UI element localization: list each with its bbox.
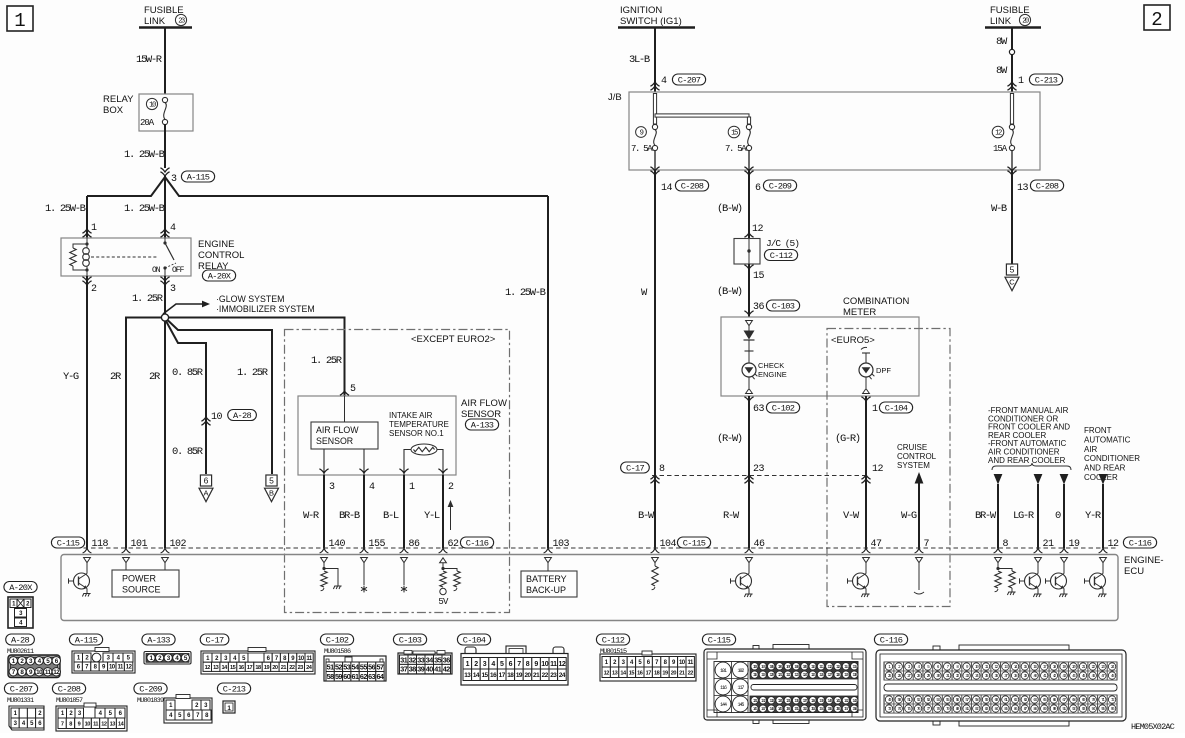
wire B-W from 6 to J/C [748, 170, 750, 238]
connector A-133 [142, 634, 175, 645]
svg-text:R-W: R-W [723, 510, 740, 522]
ECU internal transistor at pin 47 [863, 558, 870, 563]
wire W down from 14 [654, 170, 656, 548]
ECU pin 104 [651, 548, 660, 553]
svg-text:2: 2 [91, 284, 97, 295]
C-17 inline connector dashed line [652, 475, 866, 477]
connector C-103 [393, 634, 426, 645]
svg-text:SENSOR NO.1: SENSOR NO.1 [389, 429, 444, 438]
svg-text:C-17: C-17 [205, 636, 224, 646]
svg-text:33: 33 [417, 655, 424, 664]
svg-text:(B-W): (B-W) [717, 286, 742, 298]
svg-text:1. 25W-B: 1. 25W-B [505, 287, 546, 299]
svg-text:C-116: C-116 [466, 539, 489, 549]
svg-text:15W-R: 15W-R [136, 54, 163, 66]
svg-text:BACK-UP: BACK-UP [526, 585, 566, 595]
wire R-W [748, 396, 750, 548]
svg-text:A-133: A-133 [147, 636, 170, 646]
svg-text:C-116: C-116 [1129, 539, 1152, 549]
svg-text:13: 13 [110, 721, 116, 727]
svg-text:19: 19 [264, 665, 270, 671]
svg-text:ENGINE: ENGINE [198, 239, 234, 250]
svg-text:C-115: C-115 [683, 539, 706, 549]
connector C-112 [596, 634, 629, 645]
svg-text:B-W: B-W [638, 510, 655, 522]
ECU pin 86 [400, 548, 409, 553]
svg-text:57: 57 [376, 662, 383, 671]
svg-text:INTAKE AIR: INTAKE AIR [389, 411, 433, 420]
svg-text:C-213: C-213 [1035, 76, 1058, 86]
svg-text:19: 19 [516, 672, 523, 679]
svg-text:MU801857: MU801857 [56, 697, 83, 705]
svg-text:DPF: DPF [876, 366, 891, 375]
svg-text:5: 5 [500, 661, 504, 668]
branch 1.25R to air flow sensor [169, 318, 345, 397]
svg-text:C-115: C-115 [708, 636, 731, 646]
inline connector 3 A-115 [160, 168, 169, 172]
svg-text:8: 8 [659, 464, 665, 475]
relay pin 3 [160, 277, 169, 281]
ECU pin 19 [1060, 548, 1069, 553]
svg-text:C-207: C-207 [678, 76, 701, 86]
svg-text:C-103: C-103 [772, 302, 795, 312]
svg-text:14: 14 [661, 183, 673, 194]
page number 1 [7, 6, 33, 31]
svg-text:2: 2 [448, 482, 454, 493]
svg-text:64: 64 [376, 672, 383, 681]
svg-text:W-B: W-B [991, 203, 1007, 215]
wire 2R center [164, 321, 166, 548]
pointer 5 B [266, 475, 277, 486]
connector A-115 [69, 634, 102, 645]
svg-text:Y-R: Y-R [1085, 510, 1102, 522]
svg-text:C-112: C-112 [602, 636, 625, 646]
connector C-207 [4, 683, 37, 694]
svg-text:C-102: C-102 [772, 404, 795, 414]
svg-text:11: 11 [45, 669, 52, 676]
svg-text:4: 4 [661, 76, 667, 87]
branch 0.85R to pointer A [166, 321, 206, 474]
ECU connector dashed line [61, 547, 1118, 549]
svg-text:24: 24 [559, 672, 566, 679]
svg-text:3L-B: 3L-B [629, 54, 650, 66]
svg-text:14: 14 [473, 672, 480, 679]
up arrow beside Y-L [450, 506, 452, 530]
svg-text:FUSIBLE: FUSIBLE [144, 5, 184, 16]
wire Y-G [86, 276, 88, 548]
svg-text:58: 58 [327, 672, 334, 681]
svg-text:2: 2 [474, 661, 478, 668]
svg-text:(R-W): (R-W) [717, 433, 742, 445]
connector C-209 [134, 683, 167, 694]
svg-text:J/C (5): J/C (5) [766, 238, 799, 249]
ECU pin 47 [862, 548, 871, 553]
svg-text:17: 17 [499, 672, 506, 679]
wire 1.25W-B long right [547, 196, 549, 548]
svg-text:22: 22 [542, 672, 549, 679]
svg-text:C-116: C-116 [880, 636, 903, 646]
svg-text:·IMMOBILIZER SYSTEM: ·IMMOBILIZER SYSTEM [216, 304, 315, 314]
wire split at A-115 [87, 176, 548, 238]
connector C-208 [52, 683, 85, 694]
svg-text:16: 16 [490, 672, 497, 679]
svg-text:15: 15 [230, 665, 236, 671]
svg-text:(B-W): (B-W) [717, 203, 742, 215]
svg-text:23: 23 [298, 665, 304, 671]
check engine lamp [742, 363, 756, 377]
svg-text:1. 25W-B: 1. 25W-B [124, 149, 165, 161]
svg-text:SYSTEM: SYSTEM [897, 461, 930, 470]
svg-text:BR-W: BR-W [975, 510, 997, 522]
svg-text:C-208: C-208 [681, 182, 704, 192]
connector A-20X [4, 582, 37, 593]
svg-text:8: 8 [526, 661, 530, 668]
svg-text:V-W: V-W [843, 510, 860, 522]
svg-text:21: 21 [679, 670, 685, 676]
arrow to glow system [163, 304, 202, 314]
svg-text:ECU: ECU [1124, 566, 1144, 577]
wire Y-R [1099, 474, 1108, 485]
svg-text:Y-L: Y-L [424, 510, 440, 522]
svg-text:LG-R: LG-R [1013, 510, 1035, 522]
connector C-17 [200, 634, 229, 645]
svg-text:0. 85R: 0. 85R [172, 367, 204, 379]
meter outputs [744, 397, 753, 401]
svg-text:102: 102 [170, 539, 187, 550]
svg-text:ON: ON [152, 266, 161, 275]
svg-text:3: 3 [171, 174, 177, 185]
svg-text:A-28: A-28 [11, 636, 30, 646]
ECU pin 12 [1099, 548, 1108, 553]
wire to relay pin 1 [86, 196, 88, 238]
svg-text:8: 8 [1003, 539, 1009, 550]
ECU pin 21 [1034, 548, 1043, 553]
svg-text:C-115: C-115 [57, 539, 80, 549]
svg-text:4: 4 [491, 661, 495, 668]
svg-text:BR-B: BR-B [339, 510, 360, 522]
svg-text:9: 9 [534, 661, 538, 668]
svg-text:38: 38 [409, 665, 416, 674]
ECU pin 155 [360, 548, 369, 553]
svg-text:A-133: A-133 [471, 421, 494, 431]
svg-text:60: 60 [343, 672, 350, 681]
svg-text:SENSOR: SENSOR [316, 436, 353, 446]
combination meter box [721, 317, 919, 396]
svg-text:47: 47 [871, 539, 883, 550]
svg-text:C-209: C-209 [139, 685, 162, 695]
svg-text:56: 56 [368, 662, 375, 671]
branch 1.25R to pointer B [168, 320, 273, 474]
svg-text:1. 25W-B: 1. 25W-B [124, 203, 165, 215]
svg-text:52: 52 [335, 662, 342, 671]
wire 3L-B [654, 28, 656, 93]
svg-text:BATTERY: BATTERY [526, 574, 567, 584]
svg-text:35: 35 [434, 655, 441, 664]
svg-text:CONTROL: CONTROL [897, 452, 937, 461]
svg-text:AND REAR COOLER: AND REAR COOLER [988, 456, 1066, 465]
euro5 boundary [827, 329, 950, 607]
svg-text:C-112: C-112 [770, 251, 793, 261]
svg-text:4: 4 [369, 482, 375, 493]
svg-text:17: 17 [247, 665, 253, 671]
DPF lamp [865, 353, 867, 363]
svg-text:10: 10 [211, 412, 223, 423]
svg-text:3: 3 [483, 661, 487, 668]
wire W-B to pointer C [1011, 170, 1013, 264]
svg-text:HEM05X02AC: HEM05X02AC [1131, 722, 1175, 732]
svg-text:1: 1 [1018, 76, 1024, 87]
except euro2 boundary [285, 330, 510, 613]
svg-text:3: 3 [329, 482, 335, 493]
svg-text:22: 22 [289, 665, 295, 671]
svg-text:1: 1 [409, 482, 415, 493]
relay coil and resistor [86, 238, 88, 244]
fuse 12 15A [992, 126, 1004, 138]
svg-text:36: 36 [753, 302, 765, 313]
svg-text:18: 18 [654, 670, 660, 676]
svg-text:12: 12 [205, 665, 211, 671]
svg-text:11: 11 [550, 661, 557, 668]
svg-text:C-104: C-104 [885, 404, 908, 414]
svg-text:118: 118 [92, 539, 109, 550]
ECU internal at pin 7 [916, 558, 923, 563]
svg-text:SWITCH (IG1): SWITCH (IG1) [620, 16, 682, 27]
svg-text:23: 23 [550, 672, 557, 679]
svg-text:61: 61 [352, 672, 359, 681]
svg-text:10: 10 [541, 661, 548, 668]
pointer 6 A [200, 475, 211, 486]
svg-text:B: B [269, 489, 274, 498]
svg-text:59: 59 [335, 672, 342, 681]
page number 2 [1144, 5, 1170, 30]
svg-text:21: 21 [281, 665, 287, 671]
J/B outputs [650, 167, 659, 171]
svg-text:86: 86 [409, 539, 421, 550]
svg-text:63: 63 [753, 404, 765, 415]
relay box [139, 94, 193, 131]
svg-text:W-G: W-G [901, 510, 917, 522]
fuse 15 7.5A [728, 126, 740, 138]
svg-text:C-208: C-208 [1036, 182, 1059, 192]
ECU pin 46 [745, 548, 754, 553]
ECU internals at pin 8 [995, 558, 1002, 563]
junction block J/B [629, 92, 1040, 170]
pointer 5 C [1006, 264, 1017, 275]
connector C-104 [457, 634, 490, 645]
svg-text:B-L: B-L [383, 510, 399, 522]
svg-text:3: 3 [170, 284, 176, 295]
svg-text:1. 25R: 1. 25R [311, 355, 343, 367]
svg-text:15: 15 [753, 271, 765, 282]
ECU internal transistor at pin 46 [746, 558, 753, 563]
engine ECU box [61, 555, 1118, 621]
svg-text:6: 6 [204, 476, 209, 486]
svg-text:4: 4 [170, 223, 176, 234]
svg-text:J/B: J/B [608, 92, 622, 103]
svg-text:LINK: LINK [144, 16, 166, 27]
svg-text:12: 12 [53, 669, 60, 676]
svg-text:A-115: A-115 [75, 636, 98, 646]
svg-text:37: 37 [400, 665, 407, 674]
wire 8W [1011, 28, 1013, 93]
svg-text:12: 12 [1108, 539, 1120, 550]
ECU pin 103 [544, 548, 553, 553]
svg-text:5: 5 [350, 384, 356, 395]
ECU internals at pin 140 [321, 558, 328, 563]
ECU pin 62 [439, 548, 448, 553]
svg-text:104: 104 [660, 539, 677, 550]
svg-text:C-208: C-208 [58, 685, 81, 695]
svg-text:12: 12 [101, 721, 107, 727]
svg-text:BOX: BOX [103, 105, 124, 116]
svg-text:140: 140 [329, 539, 346, 550]
air flow sensor inner box [311, 422, 378, 449]
svg-text:ENGINE-: ENGINE- [1124, 555, 1164, 566]
svg-text:W-R: W-R [303, 510, 320, 522]
svg-text:FRONT: FRONT [1084, 426, 1112, 435]
ECU pin 118 [83, 548, 92, 553]
ECU pin 140 [320, 548, 329, 553]
svg-text:<EURO5>: <EURO5> [831, 335, 875, 346]
svg-text:10: 10 [85, 721, 91, 727]
svg-text:103: 103 [553, 539, 570, 550]
wire LG-R [1034, 474, 1043, 485]
svg-text:31: 31 [400, 655, 407, 664]
svg-text:C-104: C-104 [463, 636, 486, 646]
fusible link bus bar [139, 26, 192, 28]
svg-text:A-20X: A-20X [208, 272, 232, 282]
relay switch [91, 256, 158, 258]
ECU pin 101 [122, 548, 131, 553]
svg-text:CRUISE: CRUISE [897, 443, 927, 452]
ECU internal transistor at pin 1103 [1100, 558, 1107, 563]
connector C-213 [217, 683, 250, 694]
svg-text:63: 63 [368, 672, 375, 681]
svg-text:32: 32 [409, 655, 416, 664]
svg-text:101: 101 [131, 539, 148, 550]
svg-text:15: 15 [481, 672, 488, 679]
svg-text:<EXCEPT EURO2>: <EXCEPT EURO2> [411, 334, 496, 345]
svg-text:1: 1 [872, 404, 878, 415]
fuse 9 7.5A [636, 127, 647, 138]
svg-text:7: 7 [517, 661, 521, 668]
svg-text:CONTROL: CONTROL [198, 250, 244, 261]
diode in combination meter [746, 321, 753, 326]
svg-text:AND REAR: AND REAR [1084, 464, 1126, 473]
ECU internals at pin 104 [652, 558, 659, 563]
junction connector J/C(5) C-112 [734, 239, 760, 265]
svg-text:42: 42 [443, 665, 450, 674]
svg-text:5: 5 [269, 476, 274, 486]
svg-text:6: 6 [509, 661, 513, 668]
svg-text:18: 18 [255, 665, 261, 671]
J/B bus bars [653, 94, 656, 125]
svg-text:CONDITIONER: CONDITIONER [1084, 454, 1140, 463]
svg-text:AUTOMATIC: AUTOMATIC [1084, 435, 1131, 444]
svg-text:MU801839: MU801839 [137, 697, 164, 705]
connector C-116 big [874, 634, 907, 645]
connector C-115 big [702, 634, 735, 645]
air flow sensor outer box A-133 [298, 396, 456, 475]
svg-text:36: 36 [443, 655, 450, 664]
svg-text:54: 54 [352, 662, 359, 671]
svg-text:C-103: C-103 [399, 636, 422, 646]
svg-text:A-115: A-115 [187, 173, 210, 183]
battery back-up block [545, 558, 552, 563]
svg-text:10: 10 [36, 669, 43, 676]
svg-text:7: 7 [61, 721, 64, 727]
svg-text:A-28: A-28 [233, 411, 252, 421]
svg-text:12: 12 [559, 661, 566, 668]
connector A-28 [6, 634, 35, 645]
svg-text:7: 7 [924, 539, 930, 550]
svg-text:1: 1 [14, 10, 25, 32]
svg-text:18: 18 [507, 672, 514, 679]
svg-text:15A: 15A [993, 144, 1008, 154]
svg-text:MU801331: MU801331 [7, 697, 34, 705]
ECU internals at pin 155 [361, 558, 368, 563]
brace [992, 463, 1071, 470]
svg-text:C: C [1009, 278, 1015, 287]
svg-text:POWER: POWER [122, 574, 157, 584]
svg-text:5V: 5V [438, 597, 449, 607]
svg-text:13: 13 [213, 665, 219, 671]
svg-text:A: A [203, 489, 208, 498]
svg-text:19: 19 [662, 670, 668, 676]
svg-text:SENSOR: SENSOR [461, 409, 501, 420]
pin 118 C-115 label [51, 537, 84, 548]
junction node circle [161, 314, 168, 321]
svg-text:39: 39 [417, 665, 424, 674]
svg-text:1. 25R: 1. 25R [132, 293, 164, 305]
svg-text:IGNITION: IGNITION [620, 5, 662, 16]
ECU pin 102 [161, 548, 170, 553]
svg-text:22: 22 [688, 670, 694, 676]
svg-text:Y-G: Y-G [63, 371, 79, 383]
svg-text:55: 55 [360, 662, 367, 671]
svg-text:7. 5A: 7. 5A [631, 144, 653, 154]
wire 0 [1060, 474, 1069, 485]
svg-text:51: 51 [327, 662, 334, 671]
svg-text:C-209: C-209 [769, 182, 792, 192]
svg-text:C-213: C-213 [223, 685, 246, 695]
svg-text:TEMPERATURE: TEMPERATURE [389, 420, 449, 429]
svg-text:20: 20 [272, 665, 278, 671]
ECU pin 8 [994, 548, 1003, 553]
fuse 10 20A in relay box [146, 98, 157, 109]
svg-text:46: 46 [754, 539, 766, 550]
wires W-R BR-B B-L Y-L [323, 475, 325, 548]
svg-text:1. 25W-B: 1. 25W-B [45, 203, 86, 215]
svg-text:METER: METER [843, 307, 876, 318]
svg-text:17: 17 [646, 670, 652, 676]
svg-text:A-20X: A-20X [9, 583, 33, 593]
svg-text:C-17: C-17 [626, 464, 645, 474]
svg-text:2: 2 [1151, 9, 1162, 31]
svg-text:15: 15 [629, 670, 635, 676]
ECU pin 7 [915, 548, 924, 553]
svg-text:13: 13 [1017, 183, 1029, 194]
wire G-R [865, 396, 867, 548]
svg-text:SOURCE: SOURCE [122, 585, 161, 595]
engine control relay A-20X [61, 238, 191, 276]
ECU internal transistor at pin 1038 [1035, 558, 1042, 563]
branch 2R left [126, 318, 162, 549]
wire 15W-R [164, 28, 166, 95]
wire B-W to combination meter [748, 264, 750, 317]
svg-text:16: 16 [637, 670, 643, 676]
svg-text:·GLOW SYSTEM: ·GLOW SYSTEM [216, 294, 284, 304]
